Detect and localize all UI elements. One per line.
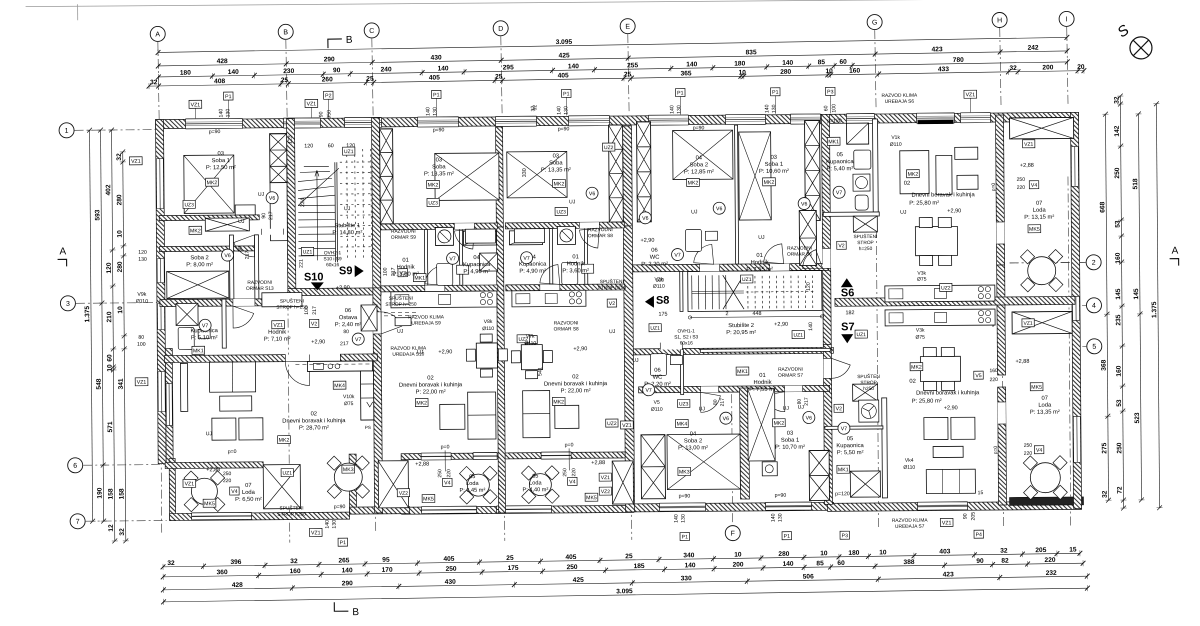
svg-text:V4: V4: [1036, 448, 1043, 454]
left dimension column 593/548/190: [94, 128, 107, 524]
north symbol: [1114, 21, 1152, 59]
label UZ2 (610,147): [603, 143, 615, 151]
window right wall y420: [1073, 416, 1080, 462]
wardrobe aptS6: [900, 151, 929, 194]
left dimension column detail 2: [116, 149, 129, 543]
wall above kitchen left apt: [340, 354, 377, 361]
svg-text:p=90: p=90: [558, 126, 570, 132]
circle label V6 (273,195): [266, 192, 278, 204]
wc aptB: [437, 263, 469, 285]
svg-text:D: D: [498, 26, 503, 33]
label VZ1 (1030,147): [1023, 140, 1035, 148]
door arc left kupaonica: [233, 306, 254, 328]
svg-text:UJ: UJ: [206, 431, 213, 437]
svg-text:UZ2: UZ2: [604, 145, 614, 151]
svg-text:UZ2: UZ2: [607, 421, 617, 427]
window top wall x570: [568, 116, 609, 126]
svg-text:VZ1: VZ1: [311, 530, 321, 536]
staircase 2 (horizontal, Stubiste 2): [692, 274, 816, 309]
svg-text:405: 405: [429, 74, 440, 81]
svg-text:UJ: UJ: [397, 329, 404, 335]
svg-text:V3k: V3k: [916, 328, 925, 334]
table loggia left: [184, 471, 225, 512]
svg-text:158: 158: [119, 488, 126, 499]
svg-text:145: 145: [1133, 288, 1140, 299]
armchairs aptS7: [924, 417, 948, 439]
door opening aptC soba: [579, 222, 599, 228]
svg-text:25: 25: [281, 77, 289, 84]
party wall D/right upper: [821, 114, 831, 344]
svg-text:Ø75: Ø75: [344, 401, 354, 407]
svg-text:+2,90: +2,90: [774, 322, 788, 328]
door opening loggia top right: [996, 222, 1004, 244]
svg-text:130: 130: [332, 520, 338, 529]
svg-text:MK2: MK2: [688, 180, 699, 186]
partition kupaonica left: [222, 299, 226, 348]
svg-text:275: 275: [1101, 442, 1108, 453]
svg-text:MK2: MK2: [908, 172, 919, 178]
svg-text:330: 330: [681, 575, 692, 582]
svg-text:UZ3: UZ3: [679, 401, 689, 407]
svg-text:82: 82: [1001, 558, 1009, 565]
grid axis B bubble: [278, 24, 293, 39]
svg-text:p=90: p=90: [775, 493, 787, 499]
axis line H upper: [1000, 28, 1001, 106]
svg-text:V6: V6: [269, 196, 276, 202]
svg-text:Ø110: Ø110: [482, 326, 494, 332]
svg-text:425: 425: [559, 52, 570, 59]
wall aptS7 rooms: [639, 385, 830, 392]
partition aptC bath2: [584, 228, 587, 284]
svg-text:P2: P2: [325, 93, 332, 99]
svg-text:140: 140: [686, 61, 697, 68]
bottom dimension row 2: [161, 556, 1086, 580]
shower left apt: [176, 303, 198, 325]
label VZ1 loggia divider: [1022, 319, 1034, 327]
svg-text:15: 15: [1069, 547, 1077, 554]
bed soba aptS7: [667, 434, 740, 490]
svg-text:F: F: [731, 531, 735, 538]
shaft right mid upper: [799, 210, 816, 265]
door opening aptB hall: [425, 285, 445, 291]
window top wall x962: [960, 113, 990, 123]
armchair aptS6 b: [957, 175, 978, 189]
bottom label P1 x683: [680, 532, 690, 540]
svg-text:MK2: MK2: [911, 365, 922, 371]
svg-text:140: 140: [782, 60, 793, 67]
window right wall y150: [1071, 146, 1078, 186]
svg-text:220: 220: [1044, 557, 1055, 564]
svg-text:130: 130: [681, 514, 687, 523]
svg-text:UZ1: UZ1: [283, 471, 293, 477]
svg-text:SPUŠTENISTROP h=250: SPUŠTENISTROP h=250: [276, 297, 308, 310]
top label P1 x682: [676, 88, 686, 96]
circle label V7 (527,257): [521, 252, 533, 264]
label V5 loggia wall: [974, 371, 984, 379]
svg-text:185: 185: [634, 563, 645, 570]
svg-text:541: 541: [537, 367, 543, 376]
stair core wall right: [371, 118, 380, 295]
partition aptD wc: [680, 272, 683, 312]
svg-text:SPUŠTENISTROP h250: SPUŠTENISTROP h250: [598, 278, 627, 291]
grid axis D bubble: [493, 21, 508, 36]
bed soba1 left: [184, 155, 234, 213]
axis line G upper: [875, 30, 876, 108]
svg-text:224: 224: [300, 198, 306, 207]
svg-text:32: 32: [290, 558, 298, 565]
svg-text:180: 180: [734, 60, 745, 67]
top dimension row 2 (axis distances): [156, 44, 1070, 69]
wc aptS7: [650, 354, 682, 376]
label VZ1 (626,425): [621, 421, 634, 429]
shaft aptB left: [380, 129, 394, 224]
svg-text:P: 25,80 m²: P: 25,80 m²: [909, 200, 939, 206]
svg-text:VZ1: VZ1: [137, 380, 147, 386]
svg-text:140: 140: [674, 514, 680, 523]
grid axis 5 bubble: [1087, 339, 1102, 354]
wall H loggia lower: [998, 387, 1007, 505]
top label P1 x230: [224, 92, 234, 100]
svg-text:Ø110: Ø110: [903, 465, 915, 471]
svg-text:MK2: MK2: [428, 182, 439, 188]
wc aptS6: [685, 229, 717, 251]
bath tub kupaonica S6: [854, 150, 871, 169]
svg-text:p=0: p=0: [228, 449, 237, 455]
svg-text:+2,90: +2,90: [573, 346, 587, 352]
svg-text:120: 120: [304, 143, 313, 149]
window top wall x187: [185, 118, 242, 128]
svg-text:95: 95: [382, 557, 390, 564]
grid axis C bubble: [364, 23, 379, 38]
svg-text:A: A: [59, 246, 66, 257]
svg-text:MK1: MK1: [737, 369, 748, 375]
svg-text:250: 250: [1017, 177, 1026, 183]
grid axis A bubble: [150, 26, 165, 41]
svg-text:SPUŠTENISTROP h=250: SPUŠTENISTROP h=250: [385, 295, 417, 308]
loggia top-right x-block: [1010, 117, 1074, 139]
svg-text:V7: V7: [523, 256, 530, 262]
label MK4 soba2 S7: [676, 419, 689, 427]
svg-text:V6: V6: [801, 202, 808, 208]
exterior wall left: [155, 120, 166, 464]
partition aptC bath: [549, 229, 552, 285]
door arc right apt lower: [831, 358, 850, 378]
svg-text:140: 140: [218, 109, 224, 118]
top label P1 x438: [432, 90, 442, 98]
svg-text:140: 140: [771, 513, 777, 522]
svg-text:+2,88: +2,88: [415, 462, 429, 468]
wc left apt: [178, 327, 210, 349]
kitchen wall aptC: [506, 284, 625, 291]
svg-text:V10k: V10k: [343, 394, 355, 400]
svg-text:60: 60: [837, 560, 845, 567]
door opening aptD soba1: [770, 264, 790, 271]
window top wall x727: [725, 114, 765, 124]
svg-text:UJ: UJ: [632, 358, 639, 364]
svg-text:MK2: MK2: [279, 438, 290, 444]
svg-text:330: 330: [522, 168, 528, 177]
axis line A upper: [158, 42, 159, 120]
circle label V7 (843,430): [838, 422, 850, 434]
svg-text:UJ: UJ: [238, 219, 245, 225]
kitchen corner left apt: [295, 361, 373, 421]
svg-text:250: 250: [567, 564, 578, 571]
svg-text:UJ: UJ: [569, 199, 576, 205]
label UZ1 (350,149): [343, 147, 355, 155]
svg-text:180: 180: [848, 550, 859, 557]
shaft aptS7 kupaonica: [853, 384, 878, 401]
svg-text:V4: V4: [569, 479, 576, 485]
shaft aptD right: [805, 120, 821, 220]
svg-text:593: 593: [94, 209, 101, 220]
axis line 7: [86, 520, 167, 523]
stair2 lower dim line: [690, 316, 822, 317]
bottom label P4 x977: [974, 530, 984, 538]
door opening aptS7 soba: [701, 386, 719, 392]
svg-text:VZ1: VZ1: [601, 475, 610, 481]
svg-text:+2,90: +2,90: [944, 405, 958, 411]
circle label V6 (805,205): [798, 198, 810, 210]
bed soba aptB: [435, 153, 499, 201]
svg-text:200: 200: [733, 561, 744, 568]
exterior wall loggia left: [169, 458, 175, 520]
loggia right divider block: [1012, 311, 1072, 333]
label UZ1 right of stair: [855, 330, 867, 338]
svg-text:UJ: UJ: [417, 350, 424, 356]
svg-text:V4: V4: [1031, 183, 1038, 189]
svg-text:448: 448: [753, 311, 762, 317]
label UZ1 (308,249): [301, 247, 313, 255]
door arc left entry: [285, 361, 309, 385]
tv board left apt: [180, 363, 187, 411]
window left wall y155: [156, 159, 163, 209]
label VZ1 loggia right: [599, 473, 611, 481]
partition aptS7 corridor: [700, 348, 830, 352]
page crop line top: [26, 0, 1090, 7]
armchair left apt 1: [212, 418, 236, 440]
svg-text:P1: P1: [225, 94, 232, 100]
loggia divider block mid: [612, 461, 633, 504]
kitchen aptC: [512, 290, 586, 307]
mirror cabinet kupaonica S6: [847, 123, 869, 144]
shaft void left apt: [270, 183, 287, 241]
svg-text:UZ2: UZ2: [941, 285, 951, 291]
label V2 (314,321): [309, 319, 319, 327]
svg-text:MK5: MK5: [423, 496, 434, 502]
wall aptB left lower: [373, 288, 383, 513]
svg-text:255: 255: [627, 62, 638, 69]
svg-text:UZ1: UZ1: [742, 277, 752, 283]
svg-text:25: 25: [366, 76, 374, 83]
label VZ1 interior left: [272, 321, 285, 329]
label UZ3 (190,201): [183, 200, 195, 208]
svg-text:242: 242: [1028, 45, 1039, 52]
svg-text:P3: P3: [842, 533, 849, 539]
svg-text:VZ1: VZ1: [273, 323, 283, 329]
label UZ2 aptC right: [606, 419, 618, 427]
svg-text:140: 140: [764, 104, 770, 113]
svg-text:MK5: MK5: [586, 495, 597, 501]
party wall B/C upper: [496, 127, 504, 227]
svg-text:MK5: MK5: [204, 501, 215, 507]
svg-text:3.095: 3.095: [556, 39, 573, 46]
svg-text:UZ1: UZ1: [303, 249, 313, 255]
svg-text:S9: S9: [339, 265, 353, 277]
svg-text:160: 160: [290, 568, 301, 575]
svg-text:140: 140: [438, 65, 449, 72]
window top wall x346: [344, 117, 381, 127]
kitchen hood bar S6: [918, 120, 954, 124]
window left wall y368: [158, 372, 165, 412]
partition right kupaonica: [873, 119, 879, 215]
svg-text:P3: P3: [827, 89, 834, 95]
svg-text:VZ2: VZ2: [601, 489, 610, 495]
svg-text:MK4: MK4: [334, 383, 345, 389]
exterior wall top: [155, 112, 1078, 128]
circle label V7 (840,194): [833, 186, 845, 198]
svg-text:240: 240: [381, 66, 392, 73]
svg-text:140: 140: [325, 520, 331, 529]
door opening aptB soba: [454, 223, 474, 229]
svg-text:835: 835: [746, 49, 757, 56]
svg-text:+2,90: +2,90: [336, 285, 350, 291]
bed soba aptC: [507, 151, 567, 197]
wall under soba aptB: [380, 223, 497, 230]
svg-text:Vk4: Vk4: [905, 458, 914, 464]
axis line 2: [1010, 261, 1086, 264]
wall living/loggia1 divider: [165, 462, 263, 469]
svg-text:405: 405: [565, 554, 576, 561]
armchair aptB: [440, 404, 465, 429]
svg-text:V7: V7: [836, 190, 843, 196]
svg-text:205: 205: [1035, 547, 1046, 554]
svg-text:p=120: p=120: [827, 118, 842, 124]
label UZ1 (747,280): [741, 275, 753, 283]
svg-text:32: 32: [1000, 548, 1008, 555]
door arc aptS7 soba1: [765, 392, 785, 412]
svg-text:250: 250: [1114, 167, 1121, 178]
partition right kupaonica lower top: [825, 426, 883, 429]
svg-text:220: 220: [990, 377, 999, 383]
circle label V7 (453,257): [447, 252, 459, 264]
label V4 loggia c: [568, 477, 578, 485]
svg-text:B: B: [352, 607, 359, 618]
svg-text:25: 25: [495, 73, 503, 80]
svg-text:85: 85: [818, 59, 826, 66]
window left wall y255: [157, 259, 164, 283]
partition aptD soba: [735, 125, 739, 264]
door arc right apt: [803, 250, 823, 269]
svg-text:UJ: UJ: [699, 406, 706, 412]
shaft left apt: [270, 134, 287, 183]
svg-text:p=90: p=90: [209, 129, 221, 135]
svg-text:668: 668: [1099, 201, 1106, 212]
svg-text:140: 140: [568, 63, 579, 70]
svg-text:217: 217: [804, 397, 810, 406]
svg-text:80: 80: [343, 329, 349, 335]
label V4 right top: [1029, 181, 1039, 189]
svg-text:Dnevni boravak i kuhinja: Dnevni boravak i kuhinja: [912, 192, 976, 199]
svg-text:10: 10: [879, 549, 887, 556]
axis line H lower: [1001, 177, 1004, 527]
label UZ2 (946,290): [940, 283, 952, 291]
top dimension row 1 (3.095): [156, 31, 1070, 56]
svg-text:160: 160: [1115, 252, 1122, 263]
label MK5 loggia: [203, 499, 216, 507]
svg-text:60: 60: [823, 105, 829, 111]
axis line I upper: [1067, 27, 1068, 105]
svg-text:V7: V7: [645, 388, 652, 394]
top label P1 x568: [562, 89, 572, 97]
door opening left apt soba1: [261, 229, 283, 235]
partition aptB bath2: [459, 229, 462, 285]
kitchen aptS7: [885, 309, 995, 326]
axis line 5: [1082, 345, 1086, 347]
svg-text:Stubište 2P: 20,95 m²: Stubište 2P: 20,95 m²: [726, 323, 756, 336]
wc aptC: [562, 262, 594, 284]
party wall C/D upper: [623, 126, 633, 226]
label MK3 dining left: [342, 465, 355, 473]
svg-text:140: 140: [556, 106, 562, 115]
svg-text:V7: V7: [674, 253, 681, 259]
svg-text:MK2: MK2: [553, 399, 564, 405]
svg-text:90: 90: [333, 67, 341, 74]
door arc aptB entry: [381, 312, 402, 334]
svg-text:p=90: p=90: [433, 127, 445, 133]
svg-text:100: 100: [383, 267, 389, 276]
nightstand soba1 left: [235, 205, 255, 215]
label VZ1 left top: [129, 157, 142, 165]
bed soba2 left: [167, 271, 229, 298]
svg-text:235: 235: [1115, 314, 1122, 325]
svg-text:P1: P1: [682, 534, 689, 540]
svg-text:100: 100: [831, 104, 837, 113]
dark loggia bottom wall right: [1009, 497, 1083, 506]
sofa aptC: [523, 391, 550, 438]
top label VZ1 x972: [964, 90, 977, 98]
svg-text:90: 90: [261, 213, 267, 219]
partition right kupaonica bottom: [823, 212, 879, 216]
washer kupaonica S6: [853, 174, 870, 191]
svg-text:V6: V6: [589, 191, 596, 197]
svg-text:368: 368: [1101, 359, 1108, 370]
svg-text:140: 140: [342, 567, 353, 574]
svg-text:388: 388: [903, 559, 914, 566]
svg-text:32: 32: [119, 528, 126, 536]
svg-text:p=0: p=0: [993, 446, 999, 455]
svg-text:V7: V7: [841, 426, 848, 432]
svg-text:MK5: MK5: [1031, 385, 1042, 391]
svg-text:5: 5: [1092, 344, 1096, 351]
circle label V6 (720,209): [713, 202, 725, 214]
label UZ3 (683,404): [678, 399, 690, 407]
window top wall x497: [495, 116, 536, 126]
wall aptS7 soba divider: [740, 388, 750, 499]
svg-text:250: 250: [437, 469, 443, 478]
shaft aptS7 right: [809, 450, 829, 500]
top dimension row 3: [156, 55, 1070, 80]
grid axis H bubble: [992, 12, 1007, 27]
svg-text:MK3: MK3: [679, 469, 690, 475]
svg-text:360: 360: [217, 569, 228, 576]
door opening aptC hall: [540, 284, 560, 290]
svg-text:UZ1: UZ1: [793, 333, 803, 339]
svg-text:220: 220: [571, 468, 577, 477]
svg-text:221: 221: [299, 259, 305, 268]
svg-text:10: 10: [820, 550, 828, 557]
svg-text:MK2: MK2: [774, 421, 785, 427]
dining table aptC: [511, 336, 552, 379]
